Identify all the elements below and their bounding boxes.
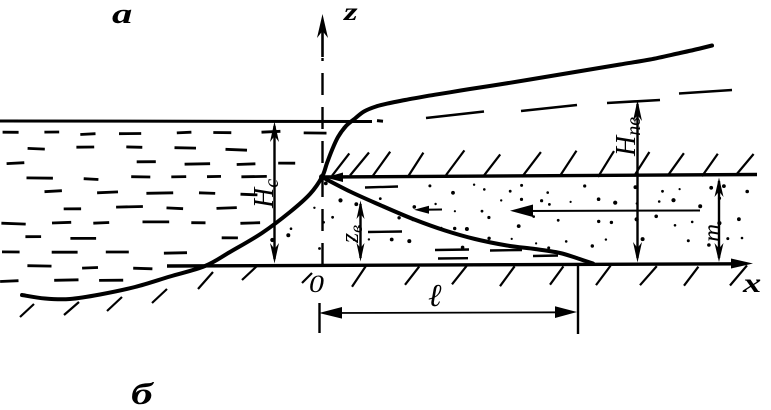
svg-text:z: z	[343, 0, 358, 26]
sea level line	[0, 119, 383, 123]
flow arrow (large, pointing left)	[510, 205, 700, 218]
stipple dots (aquifer sand)	[270, 182, 749, 250]
top boundary arrowhead at origin	[325, 173, 343, 183]
dimension zv arrow	[357, 201, 365, 262]
aquifer top boundary	[324, 175, 757, 178]
svg-text:б: б	[131, 377, 155, 405]
dimension Hc arrow	[270, 122, 279, 264]
dimension m arrow	[715, 178, 724, 263]
wedge water dashes	[365, 187, 558, 259]
sea water dashes	[0, 131, 326, 281]
z axis dashed line	[321, 58, 323, 265]
groundwater table dashed line	[426, 90, 732, 118]
svg-text:m: m	[699, 224, 726, 242]
svg-text:ℓ: ℓ	[428, 277, 442, 313]
top boundary hatching	[332, 150, 754, 177]
flow arrow (small)	[414, 206, 442, 214]
svg-text:а: а	[112, 0, 132, 30]
dimension l arrow	[319, 306, 577, 318]
dimension l extension ticks	[320, 266, 579, 334]
svg-text:x: x	[742, 268, 761, 298]
dimension Hpv arrow	[633, 100, 642, 263]
ground surface / bank / sea bottom curve	[22, 46, 712, 300]
aquifer bottom boundary (x axis)	[167, 264, 741, 266]
bottom boundary hatching	[20, 265, 747, 317]
svg-text:0: 0	[309, 269, 324, 297]
origin junction	[319, 174, 325, 180]
z axis arrow	[317, 14, 328, 57]
fresh/salt interface curve	[322, 177, 593, 264]
x axis arrowhead	[731, 259, 753, 269]
